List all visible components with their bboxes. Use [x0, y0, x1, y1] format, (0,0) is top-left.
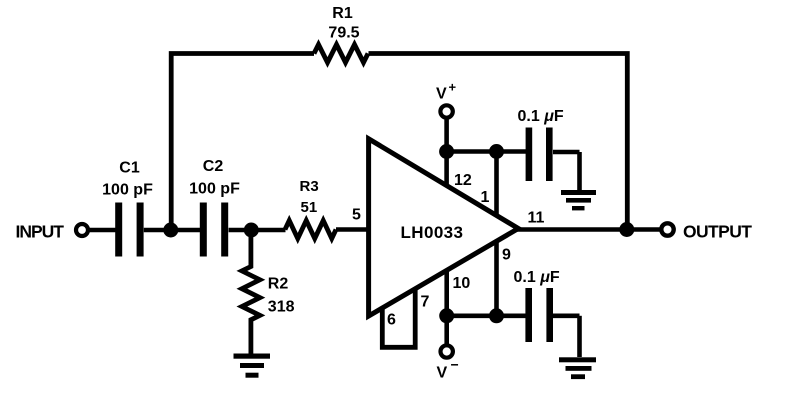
ground (bottom bypass): [559, 357, 596, 379]
svg-text:100 pF: 100 pF: [102, 182, 153, 199]
svg-text:0.1 μF: 0.1 μF: [514, 269, 560, 286]
capacitor C4 0.1uF (bottom bypass): [514, 269, 580, 357]
svg-text:5: 5: [352, 207, 361, 224]
wire top feedback left segment: [171, 54, 314, 231]
svg-text:R2: R2: [268, 276, 289, 293]
pin 12 stub: [444, 152, 449, 188]
wire output: [516, 227, 660, 232]
resistor R2: [242, 230, 295, 354]
svg-text:R1: R1: [332, 5, 353, 22]
node pin9 rail: [489, 308, 504, 323]
wire C1 to C2: [144, 228, 201, 233]
ground (top bypass): [561, 190, 596, 210]
svg-text:INPUT: INPUT: [16, 222, 65, 242]
svg-text:1: 1: [481, 189, 490, 206]
op-amp U1 LH0033: [369, 139, 519, 316]
pin 1 stub: [494, 152, 499, 217]
pin 9 stub: [494, 241, 499, 316]
svg-text:+: +: [449, 80, 457, 95]
node output junction: [619, 222, 634, 237]
svg-text:9: 9: [502, 247, 511, 264]
V+ supply: [436, 80, 457, 152]
svg-text:6: 6: [387, 312, 396, 329]
wire top feedback right segment: [369, 54, 628, 230]
ground (R2): [234, 354, 271, 378]
svg-text:7: 7: [421, 294, 430, 311]
node B (R2 junction): [244, 223, 259, 238]
node A (feedback junction): [163, 223, 178, 238]
node pin1 rail: [489, 144, 504, 159]
svg-text:LH0033: LH0033: [401, 223, 464, 242]
resistor R3: [285, 178, 336, 239]
resistor R1: [314, 5, 368, 63]
svg-text:11: 11: [528, 210, 545, 227]
svg-text:−: −: [451, 357, 459, 373]
svg-text:12: 12: [454, 172, 472, 189]
node V- rail: [439, 308, 454, 323]
svg-text:79.5: 79.5: [328, 25, 359, 42]
svg-text:OUTPUT: OUTPUT: [683, 222, 752, 242]
V- supply: [437, 316, 459, 382]
svg-text:C2: C2: [203, 158, 224, 175]
wire R3 to pin 5: [336, 227, 368, 232]
node V+ rail: [439, 144, 454, 159]
svg-text:51: 51: [301, 199, 318, 216]
wire bottom rail: [447, 313, 526, 318]
svg-text:10: 10: [453, 275, 471, 292]
OUTPUT terminal: [661, 222, 752, 242]
pin 10 stub: [444, 269, 449, 316]
svg-text:318: 318: [268, 299, 295, 316]
capacitor C3 0.1uF (top bypass): [518, 108, 580, 190]
INPUT terminal: [16, 222, 89, 242]
svg-text:R3: R3: [300, 178, 319, 195]
wire C2 to R3: [229, 228, 286, 233]
capacitor C1: [102, 160, 153, 257]
svg-text:V: V: [436, 86, 447, 103]
capacitor C2: [189, 158, 240, 257]
svg-text:0.1 μF: 0.1 μF: [518, 108, 564, 125]
wire input to C1: [88, 228, 116, 233]
wire top rail: [447, 149, 526, 154]
svg-text:C1: C1: [119, 160, 140, 177]
pin 6 tab box: [382, 288, 415, 347]
svg-text:100 pF: 100 pF: [189, 181, 240, 198]
svg-text:V: V: [437, 365, 448, 382]
